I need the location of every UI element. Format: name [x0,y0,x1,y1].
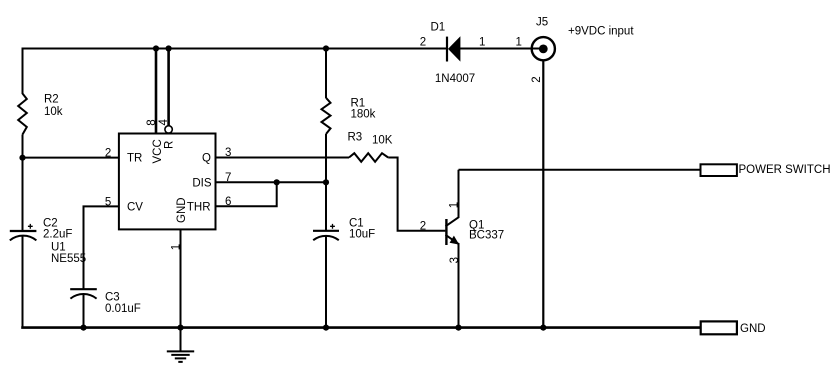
capacitor C2 top plate [10,230,37,232]
capacitor C1 top plate [313,230,339,232]
svg-text:R2: R2 [44,94,59,106]
inversion bubble pin 4 [165,126,172,133]
capacitor C1 curved plate [313,236,339,240]
resistor R3 [349,153,388,162]
junction node pin 4 at rail [166,45,172,51]
junction node DIS/R1/C1 [323,179,329,185]
wire C2 to ground rail [22,237,24,329]
transistor Q1 base bar [445,219,447,245]
svg-text:GND: GND [176,197,188,223]
wire R3 to Q1 base [388,158,445,231]
connector GND box [701,321,737,334]
svg-text:NE555: NE555 [51,253,86,265]
svg-text:GND: GND [740,323,766,335]
wire C1 to ground rail [325,236,327,328]
ground symbol [167,328,194,362]
svg-text:8: 8 [146,119,158,125]
capacitor C2 plus sign [28,224,33,229]
transistor Q1 emitter arrow [450,236,460,245]
svg-text:POWER SWITCH: POWER SWITCH [739,164,831,176]
svg-text:D1: D1 [431,22,446,34]
junction node J5 at ground rail [540,325,546,331]
capacitor C3 top plate [70,288,97,290]
svg-text:C2: C2 [43,217,58,229]
svg-text:R3: R3 [348,132,363,144]
resistor R2 [18,94,27,135]
op-amp U1 NE555 body [119,134,216,230]
diode D1 body [448,36,460,61]
svg-text:C3: C3 [105,292,120,304]
svg-text:1: 1 [516,37,522,49]
svg-text:10K: 10K [372,135,393,147]
wire R1 bottom to C1 [325,134,327,230]
svg-text:Q: Q [202,153,211,165]
svg-text:6: 6 [225,196,231,208]
junction node C1 at ground rail [323,325,329,331]
wire DIS pin 7 [216,181,327,183]
connector J5 barrel [532,37,555,60]
wire reset pin 4 [167,48,170,126]
svg-text:7: 7 [225,172,231,184]
capacitor C1 plus sign [330,224,335,229]
svg-text:10uF: 10uF [349,229,375,241]
svg-text:3: 3 [225,147,231,159]
wire collector to power switch [459,169,701,171]
svg-text:10k: 10k [44,106,63,118]
wire Q output pin 3 [216,157,350,159]
junction node THR/DIS [274,179,280,185]
wire R2 bottom to C2 [22,135,24,231]
svg-text:J5: J5 [536,17,548,29]
svg-text:1: 1 [449,202,461,208]
svg-text:1N4007: 1N4007 [435,73,475,85]
wire THR pin 6 [216,181,277,206]
svg-text:BC337: BC337 [469,230,504,242]
svg-text:2: 2 [531,76,543,82]
junction node pin 8 at rail [153,45,159,51]
svg-text:U1: U1 [51,242,66,254]
diode D1 cathode bar [446,37,448,62]
wire C3 to ground rail [83,295,85,329]
wire top power rail [22,48,448,50]
svg-text:5: 5 [105,196,111,208]
svg-text:2: 2 [420,220,426,232]
svg-text:+9VDC input: +9VDC input [568,26,634,38]
svg-text:TR: TR [127,153,142,165]
svg-text:R: R [164,141,176,149]
svg-text:4: 4 [158,119,170,126]
junction node emitter at ground rail [455,325,461,331]
svg-text:0.01uF: 0.01uF [105,303,141,315]
svg-text:3: 3 [449,257,461,263]
svg-text:180k: 180k [351,109,376,121]
junction node pin 1 at ground rail [177,325,183,331]
svg-text:2: 2 [105,147,111,159]
wire J5 sleeve to ground rail [542,60,544,328]
svg-text:R1: R1 [351,97,366,109]
svg-text:DIS: DIS [192,178,212,190]
svg-text:1: 1 [479,37,485,49]
svg-text:2: 2 [420,37,426,49]
connector POWER SWITCH box [701,164,737,176]
svg-text:CV: CV [127,202,143,214]
wire R1 top lead [325,49,327,99]
transistor Q1 collector lead [446,170,459,227]
junction node C3 at ground rail [80,325,86,331]
wire TR pin 2 [23,157,119,159]
resistor R1 [322,98,331,134]
wire CV pin 5 [84,206,119,289]
wire GND pin 1 [180,229,182,328]
capacitor C3 curved plate [70,294,96,299]
capacitor C2 curved plate [10,236,37,241]
junction node TR/left rail [19,155,25,161]
wire D1 to J5 [460,48,540,50]
junction node R1 at rail [323,45,329,51]
wire VCC pin 8 [155,48,158,134]
wire left rail upper segment [22,48,24,95]
svg-text:1: 1 [170,244,182,250]
transistor Q1 emitter lead [446,235,459,329]
svg-text:VCC: VCC [152,139,164,163]
wire bottom ground rail [21,326,700,329]
svg-text:2.2uF: 2.2uF [43,229,72,241]
svg-text:THR: THR [187,202,211,214]
connector J5 center pin [539,45,548,54]
